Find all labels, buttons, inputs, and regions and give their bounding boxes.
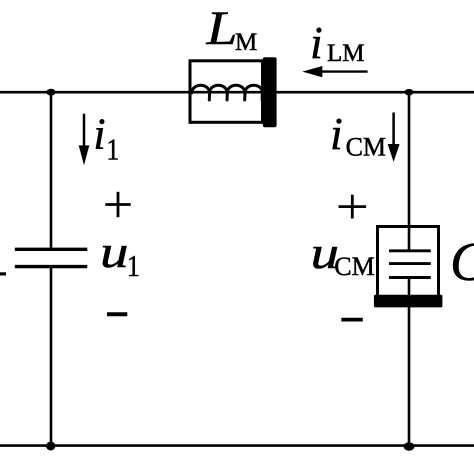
label iCM (i with subscript CM) <box>330 108 386 162</box>
svg-text:CM: CM <box>334 252 374 281</box>
svg-text:1: 1 <box>106 133 119 167</box>
label LM (L with subscript M) <box>205 3 257 56</box>
label i1 (i with subscript 1) <box>93 110 119 168</box>
capacitor C1 bottom plate <box>15 265 88 268</box>
svg-text:CM: CM <box>346 133 386 162</box>
arrow iLM current (pointing left) <box>302 66 367 77</box>
capacitor CM box outline <box>378 227 439 301</box>
node bottom-right junction <box>404 442 415 450</box>
label uCM (u with subscript CM) <box>311 229 375 281</box>
svg-text:M: M <box>235 29 257 56</box>
node bottom-left junction <box>46 442 55 451</box>
svg-text:i: i <box>93 110 105 159</box>
capacitor CM middle plate <box>389 262 431 265</box>
arrow i1 current (pointing down) <box>79 114 90 166</box>
svg-text:C: C <box>450 231 474 292</box>
cropped minus sign at left edge <box>0 272 6 275</box>
label iLM (i with subscript LM) <box>310 17 365 68</box>
svg-text:LM: LM <box>327 40 365 67</box>
node top-right junction <box>405 89 414 96</box>
svg-text:L: L <box>205 3 237 56</box>
label u1 (u with subscript 1) <box>100 227 140 283</box>
wire right vertical upper segment <box>408 92 411 251</box>
wire bottom horizontal <box>0 444 474 447</box>
inductor LM box outline <box>190 61 263 123</box>
label minus sign for uCM <box>341 318 363 322</box>
svg-text:i: i <box>310 17 323 68</box>
capacitor CM bottom electrode bar <box>374 295 443 308</box>
label plus sign for uCM <box>339 195 367 219</box>
capacitor CM top plate <box>389 249 431 252</box>
wire left vertical upper segment <box>50 92 53 251</box>
svg-text:i: i <box>330 108 343 159</box>
wire left vertical lower segment <box>50 267 53 446</box>
capacitor C1 top plate <box>15 248 88 251</box>
arrow iCM current (pointing down) <box>388 113 400 162</box>
node top-left junction <box>46 89 55 96</box>
capacitor CM lower plate <box>389 276 431 279</box>
svg-text:1: 1 <box>127 249 140 283</box>
label plus sign for u1 <box>105 192 130 217</box>
inductor LM core bar <box>263 57 277 127</box>
inductor LM winding coil <box>192 85 263 100</box>
svg-text:u: u <box>100 227 129 277</box>
label minus sign for u1 <box>107 312 127 316</box>
wire top horizontal <box>0 91 474 94</box>
wire right vertical lower segment <box>408 278 411 447</box>
